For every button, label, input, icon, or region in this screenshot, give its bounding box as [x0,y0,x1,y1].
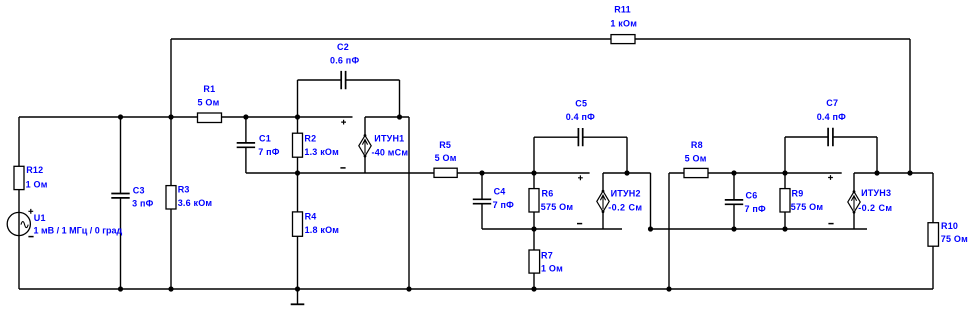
svg-text:75 Ом: 75 Ом [941,234,968,244]
capacitor C4 [473,199,491,203]
svg-text:575 Ом: 575 Ом [791,202,824,212]
svg-text:-0.2 См: -0.2 См [608,203,642,213]
wire R11 feedback rail y39 [171,38,910,40]
node C1-top [243,114,248,119]
svg-text:C5: C5 [575,99,587,109]
ITUN2 minus mark [577,223,582,225]
ITUN3 plus mark [828,175,833,180]
wire C6 branch upper [733,173,735,200]
svg-text:C2: C2 [337,42,349,52]
svg-text:0.6 пФ: 0.6 пФ [330,55,359,65]
node C6-top [731,170,736,175]
capacitor C7 [828,128,833,146]
ITUN1 minus mark [340,167,345,169]
svg-text:0.4 пФ: 0.4 пФ [566,112,595,122]
wire ITUN3 left [853,173,855,229]
resistor R6 [529,189,539,212]
node R9-top [782,170,787,175]
resistor R1 [198,113,222,123]
resistor R2 [293,133,303,157]
ground symbol [297,289,299,304]
wire ITUN1 top [365,116,409,118]
svg-text:R9: R9 [792,189,804,199]
node R9-bottom [782,226,787,231]
wire ITUN2 left [602,173,604,229]
svg-text:5 Ом: 5 Ом [685,154,707,164]
node feedback-out [907,170,912,175]
wire C1 branch lower [245,147,247,173]
svg-text:C3: C3 [133,186,145,196]
wire C3 branch x120.5 upper [120,117,122,194]
svg-text:7 пФ: 7 пФ [745,204,767,214]
wire C4 branch upper [481,173,483,199]
wire C7 rail right [833,136,877,138]
node C5-right [624,170,629,175]
svg-text:R10: R10 [941,221,958,231]
svg-text:C4: C4 [494,187,506,197]
wire ITUN1 left [364,117,366,173]
wire C2 left drop [297,80,299,117]
node R3-gnd [168,286,173,291]
svg-text:R11: R11 [614,5,631,15]
node C3-gnd [118,286,123,291]
svg-text:ИТУН2: ИТУН2 [611,189,641,199]
svg-text:7 пФ: 7 пФ [258,147,280,157]
wire C4 branch lower [481,204,483,229]
resistor R11 [611,35,635,44]
wire C5 left drop [533,137,535,173]
wire ITUN2 top [603,172,651,174]
svg-text:3.6 кОм: 3.6 кОм [178,198,213,208]
wire ITUN2 right [650,173,652,229]
resistor R5 [434,168,457,177]
resistor R8 [684,168,708,177]
capacitor C1 [237,143,255,147]
wire ITUN1 right x409 [408,117,410,289]
svg-text:1.8 кОм: 1.8 кОм [305,225,340,235]
wire C2 rail right [346,79,400,81]
resistor R7 [529,250,540,273]
node R2-top [295,114,300,119]
node C7-right [874,170,879,175]
svg-text:ИТУН3: ИТУН3 [861,188,891,198]
svg-text:-0.2 См: -0.2 См [858,203,892,213]
svg-text:R2: R2 [304,133,316,143]
wire left vertical branch x19 [18,117,20,289]
wire C2 right drop [399,80,401,117]
svg-text:1 Ом: 1 Ом [541,264,563,274]
capacitor C6 [725,200,743,204]
svg-text:0.4 пФ: 0.4 пФ [817,112,846,122]
svg-text:1 кОм: 1 кОм [610,18,637,28]
wire C3 branch x120.5 lower [120,198,122,289]
svg-text:R3: R3 [178,184,190,194]
source U1 [7,212,30,235]
wire R3 riser x171 [170,39,172,289]
wire section3 rail y173 [669,172,842,174]
node R2-bottom [295,170,300,175]
svg-text:R5: R5 [439,140,451,150]
node R7-gnd [531,286,536,291]
wire C7 left drop [784,137,786,173]
ccs ITUN2 [597,191,609,212]
svg-text:C1: C1 [259,133,271,143]
wire C6 branch lower [733,204,735,229]
ITUN2 plus mark [578,175,583,180]
node R7-top [531,226,536,231]
ccs ITUN1 [359,136,371,157]
svg-text:ИТУН1: ИТУН1 [374,133,404,143]
wire C7 right drop [876,137,878,173]
node R4-gnd [295,286,300,291]
capacitor C2 [341,71,345,89]
wire minus rail 2 y229 [482,228,622,230]
U1 minus terminal [28,236,33,238]
wire C5 rail right [583,136,627,138]
node C6-bottom [731,226,736,231]
wire R9 branch x785 [784,173,786,229]
wire R2 R4 branch x297.5 [297,117,299,289]
wire main top rail y117 [19,116,353,118]
resistor R9 [780,189,790,212]
wire C5 right drop [626,137,628,173]
resistor R3 [166,186,176,209]
svg-text:1 мВ / 1 МГц / 0 град: 1 мВ / 1 МГц / 0 град [34,226,123,236]
svg-text:1 Ом: 1 Ом [26,179,48,189]
svg-text:R12: R12 [26,165,43,175]
wire C1 branch upper [245,117,247,143]
wire middle rail y173 [246,172,590,174]
node ITUN2-out [648,226,653,231]
ITUN1 plus mark [341,120,346,125]
svg-text:-40 мСм: -40 мСм [372,148,409,158]
wire bottom ground rail y289 [19,288,933,290]
resistor R12 [14,166,24,189]
svg-text:7 пФ: 7 пФ [493,200,515,210]
capacitor C3 [111,194,129,198]
U1 plus terminal [28,209,33,214]
resistor R4 [293,212,303,236]
wire ITUN3 top [854,172,933,174]
svg-text:R6: R6 [542,189,554,199]
svg-text:R4: R4 [305,212,317,222]
wire R10 branch x933 [932,173,934,289]
wire C2 rail left [298,79,342,81]
svg-text:R8: R8 [691,140,703,150]
node C4-top [479,170,484,175]
svg-text:R1: R1 [203,84,215,94]
wire C5 rail left [534,136,578,138]
capacitor C5 [578,128,582,146]
svg-text:C7: C7 [826,98,838,108]
wire R6 R7 branch x534 [533,173,535,289]
ccs ITUN3 [848,192,860,213]
svg-text:3 пФ: 3 пФ [132,198,154,208]
svg-text:5 Ом: 5 Ом [198,98,220,108]
svg-text:R7: R7 [541,251,553,261]
svg-text:C6: C6 [746,191,758,201]
wire output rail 2 y229 [651,228,868,230]
svg-text:575 Ом: 575 Ом [541,202,574,212]
svg-text:U1: U1 [34,213,46,223]
node R8-gnd [666,286,671,291]
node ITUN1-gnd [406,286,411,291]
svg-text:1.3 кОм: 1.3 кОм [304,147,339,157]
node R6-top [531,170,536,175]
resistor R10 [928,223,939,247]
ITUN3 minus mark [828,223,833,225]
node C3-top [118,114,123,119]
wire C7 rail left [785,136,828,138]
wire R8 ground riser x669 [668,173,670,289]
node C2-right [397,114,402,119]
node R3-top [168,114,173,119]
wire right feedback drop x910 [909,39,911,173]
svg-text:5 Ом: 5 Ом [435,153,457,163]
